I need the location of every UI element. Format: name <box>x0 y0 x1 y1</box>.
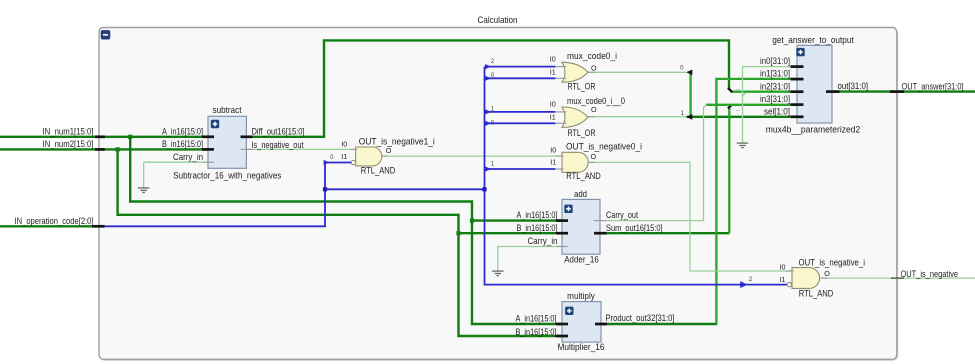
svg-text:out[31:0]: out[31:0] <box>838 81 869 91</box>
svg-text:O: O <box>824 269 830 278</box>
svg-text:mux4b__parameterized2: mux4b__parameterized2 <box>766 124 861 134</box>
svg-text:B_in16[15:0]: B_in16[15:0] <box>517 223 558 233</box>
wire op-code link to distribution trunk <box>325 188 485 190</box>
svg-text:IN_num1[15:0]: IN_num1[15:0] <box>43 126 94 136</box>
inverted input bubble OUT_is_negative_i I1 <box>787 282 791 286</box>
junction op-code riser <box>323 187 327 191</box>
inverted input bubble OUT_is_negative1_i I1 <box>351 160 355 164</box>
multiplier expand button <box>565 307 573 315</box>
svg-text:I1: I1 <box>780 277 786 284</box>
svg-text:multiply: multiply <box>567 291 595 301</box>
adder expand button <box>564 205 572 213</box>
wire adder Carry_out up into mux in3 concat <box>594 105 707 221</box>
wire bit0 to mux_code0_i__0 I1 <box>485 122 556 124</box>
svg-text:A_in16[15:0]: A_in16[15:0] <box>516 314 557 324</box>
svg-text:in0[31:0]: in0[31:0] <box>760 56 790 66</box>
or-gate mux_code0_i__0 RTL_OR <box>562 107 588 127</box>
wire Sum riser up to mux in3 <box>728 108 730 234</box>
wire mux_code0_i output to sel bit0 <box>588 71 686 73</box>
subtractor port stubs <box>202 135 214 138</box>
arrow bit2 from trunk <box>485 64 491 69</box>
wire Sum_out16 from adder <box>606 232 729 234</box>
ripper tap in2 high bits to ground net <box>742 93 746 97</box>
wire sel concat trunk <box>689 72 691 117</box>
svg-text:OUT_is_negative_i: OUT_is_negative_i <box>799 258 866 268</box>
arrow sel bit1 join <box>686 114 692 120</box>
svg-text:subtract: subtract <box>213 105 242 115</box>
svg-text:Carry_out: Carry_out <box>606 210 638 220</box>
wire IN_num1 bus <box>0 136 214 138</box>
svg-text:get_answer_to_output: get_answer_to_output <box>772 35 854 45</box>
ground for adder Carry_in <box>492 270 503 272</box>
arrow bit1 from trunk <box>485 166 491 171</box>
svg-text:Subtractor_16_with_negatives: Subtractor_16_with_negatives <box>173 170 281 180</box>
junction adder A_in16 tap <box>470 219 474 223</box>
svg-text:I0: I0 <box>550 147 556 154</box>
wire bit2 to mux_code0_i I0 <box>485 66 556 68</box>
junction adder B_in16 tap <box>456 231 460 235</box>
wire mux in0 tied to ground <box>743 67 791 143</box>
multiplier U multiply (Multiplier_16) <box>562 302 601 343</box>
wire OUT_is_negative0_i output down to OUT_is_negative_i I0 <box>588 162 793 271</box>
svg-text:Carry_in: Carry_in <box>173 152 203 162</box>
svg-text:sel[1:0]: sel[1:0] <box>764 106 790 116</box>
wire IN_operation_code inside frame, riser to AND I1 <box>96 163 325 227</box>
svg-text:RTL_OR: RTL_OR <box>568 128 596 138</box>
wire Product riser up to mux in1 <box>716 79 803 324</box>
wire Is_negative_out to AND I0 <box>241 148 357 150</box>
ground for mux in0 <box>737 142 748 144</box>
svg-text:I1: I1 <box>550 70 556 77</box>
svg-text:OUT_answer[31:0]: OUT_answer[31:0] <box>902 81 964 91</box>
svg-text:I0: I0 <box>550 56 556 63</box>
arrow bit0 from trunk <box>485 121 491 126</box>
svg-text:in2[31:0]: in2[31:0] <box>760 81 790 91</box>
svg-text:Is_negative_out: Is_negative_out <box>252 140 304 150</box>
svg-text:Diff_out16[15:0]: Diff_out16[15:0] <box>252 127 305 137</box>
svg-text:RTL_OR: RTL_OR <box>568 81 596 91</box>
svg-text:in1[31:0]: in1[31:0] <box>760 69 790 79</box>
wire IN_num2 branch down to adder and multiplier B_in16 <box>118 150 568 336</box>
svg-text:I0: I0 <box>550 101 556 108</box>
svg-text:B_in16[15:0]: B_in16[15:0] <box>516 327 557 337</box>
junction IN_num1 branch <box>128 135 132 139</box>
svg-text:I1: I1 <box>550 160 556 167</box>
wire OUT_is_negative output net <box>821 277 975 279</box>
arrow sel bit0 join <box>686 70 692 76</box>
multiplier port stubs <box>556 323 568 326</box>
svg-text:RTL_AND: RTL_AND <box>566 171 601 181</box>
arrow bit0 into AND I1 <box>324 160 330 165</box>
svg-text:I1: I1 <box>341 154 347 161</box>
svg-text:I1: I1 <box>550 115 556 122</box>
svg-text:OUT_is_negative0_i: OUT_is_negative0_i <box>566 141 642 151</box>
junction IN_num2 branch <box>116 147 120 151</box>
wire adder Carry_in tied to ground <box>498 247 568 271</box>
and-gate OUT_is_negative_i RTL_AND <box>792 268 820 289</box>
and-gate OUT_is_negative1_i RTL_AND <box>356 147 382 166</box>
Calculation module frame <box>100 29 898 361</box>
arrow bit1 from trunk <box>485 109 491 114</box>
svg-text:..: .. <box>736 85 740 92</box>
ground for subtractor Carry_in <box>138 187 149 189</box>
wire out to OUT_answer <box>826 90 975 92</box>
svg-text:A_in16[15:0]: A_in16[15:0] <box>517 210 558 220</box>
and-gate OUT_is_negative0_i RTL_AND <box>562 152 588 172</box>
port stub IN_operation_code at frame <box>92 225 105 228</box>
frame collapse button <box>101 30 111 39</box>
wire bit1 to OUT_is_negative0_i I1 <box>485 168 556 170</box>
wire IN_num2 bus <box>0 148 214 150</box>
svg-text:Product_out32[31:0]: Product_out32[31:0] <box>606 313 675 323</box>
svg-text:Multiplier_16: Multiplier_16 <box>558 342 605 352</box>
mux expand button <box>796 48 804 56</box>
arrow bit2 into OUT_is_negative_i I1 <box>740 281 747 288</box>
svg-text:Carry_in: Carry_in <box>528 236 558 246</box>
svg-text:IN_operation_code[2:0]: IN_operation_code[2:0] <box>15 216 94 226</box>
wire sel bus into mux <box>687 116 804 118</box>
svg-text:A_in16[15:0]: A_in16[15:0] <box>162 127 203 137</box>
arrow bit0 from trunk <box>485 76 491 81</box>
wire op-code distribution trunk down to OUT_is_negative_i I1 <box>485 67 788 285</box>
wire Product_out32 from multiplier <box>595 323 717 325</box>
svg-text:O: O <box>591 63 597 72</box>
svg-text:IN_num2[15:0]: IN_num2[15:0] <box>43 139 94 149</box>
svg-text:RTL_AND: RTL_AND <box>361 166 396 176</box>
or-gate mux_code0_i RTL_OR <box>562 62 588 82</box>
svg-text:RTL_AND: RTL_AND <box>799 288 834 298</box>
wire IN_num1 branch down to adder and multiplier A_in16 <box>130 137 568 324</box>
svg-text:I0: I0 <box>780 264 786 271</box>
svg-text:OUT_is_negative: OUT_is_negative <box>901 269 959 279</box>
wire mux_code0_i__0 output to sel bit1 <box>588 116 686 118</box>
port stub OUT_is_negative at frame <box>891 277 904 279</box>
svg-text:B_in16[15:0]: B_in16[15:0] <box>162 139 203 149</box>
wire branch to adder A_in16 <box>472 219 568 221</box>
svg-text:..: .. <box>736 106 740 113</box>
subtractor expand button <box>211 120 219 128</box>
svg-text:mux_code0_i: mux_code0_i <box>567 51 617 61</box>
wire bit1 to mux_code0_i__0 I0 <box>485 111 556 113</box>
wire mux in3 row <box>706 104 803 106</box>
svg-text:Calculation: Calculation <box>478 15 518 25</box>
junction op-code trunk <box>482 187 486 191</box>
subtractor U subtract (Subtractor_16_with_negatives) <box>208 116 246 168</box>
wire mux in2 row (zero-extended Diff) <box>731 91 803 93</box>
port stub IN_num2 at frame <box>95 148 105 151</box>
bevel corner in3 <box>728 105 732 109</box>
wire Diff_out16 from subtractor up and across to mux in2 <box>241 40 730 136</box>
wire subtractor Carry_in tied to ground <box>144 162 202 188</box>
wire OUT_is_negative1_i output to next AND I0 <box>382 155 556 157</box>
mux port stubs <box>791 65 804 68</box>
svg-text:in3[31:0]: in3[31:0] <box>760 94 790 104</box>
wire bit0 to mux_code0_i I1 <box>485 77 556 79</box>
wire op-code bit0 into OUT_is_negative1_i I1 <box>325 162 351 164</box>
svg-text:O: O <box>386 146 392 155</box>
gate input/output pin stubs <box>555 66 566 68</box>
port stub OUT_answer at frame <box>890 90 904 93</box>
wire IN_operation_code bus (outside frame) <box>0 225 96 227</box>
svg-text:add: add <box>574 189 587 199</box>
svg-text:Sum_out16[15:0]: Sum_out16[15:0] <box>606 223 663 233</box>
port stub IN_num1 at frame <box>95 135 105 138</box>
wire branch to adder B_in16 <box>459 232 569 234</box>
mux U get_answer_to_output (mux4b__parameterized2) <box>797 45 832 123</box>
svg-text:O: O <box>591 105 597 114</box>
svg-text:I0: I0 <box>341 142 347 149</box>
adder U add (Adder_16) <box>562 199 600 254</box>
svg-text:O: O <box>591 152 597 161</box>
bevel corner in2 <box>728 88 732 92</box>
svg-text:Adder_16: Adder_16 <box>564 255 599 265</box>
adder port stubs <box>556 219 568 222</box>
svg-text:OUT_is_negative1_i: OUT_is_negative1_i <box>359 137 435 147</box>
